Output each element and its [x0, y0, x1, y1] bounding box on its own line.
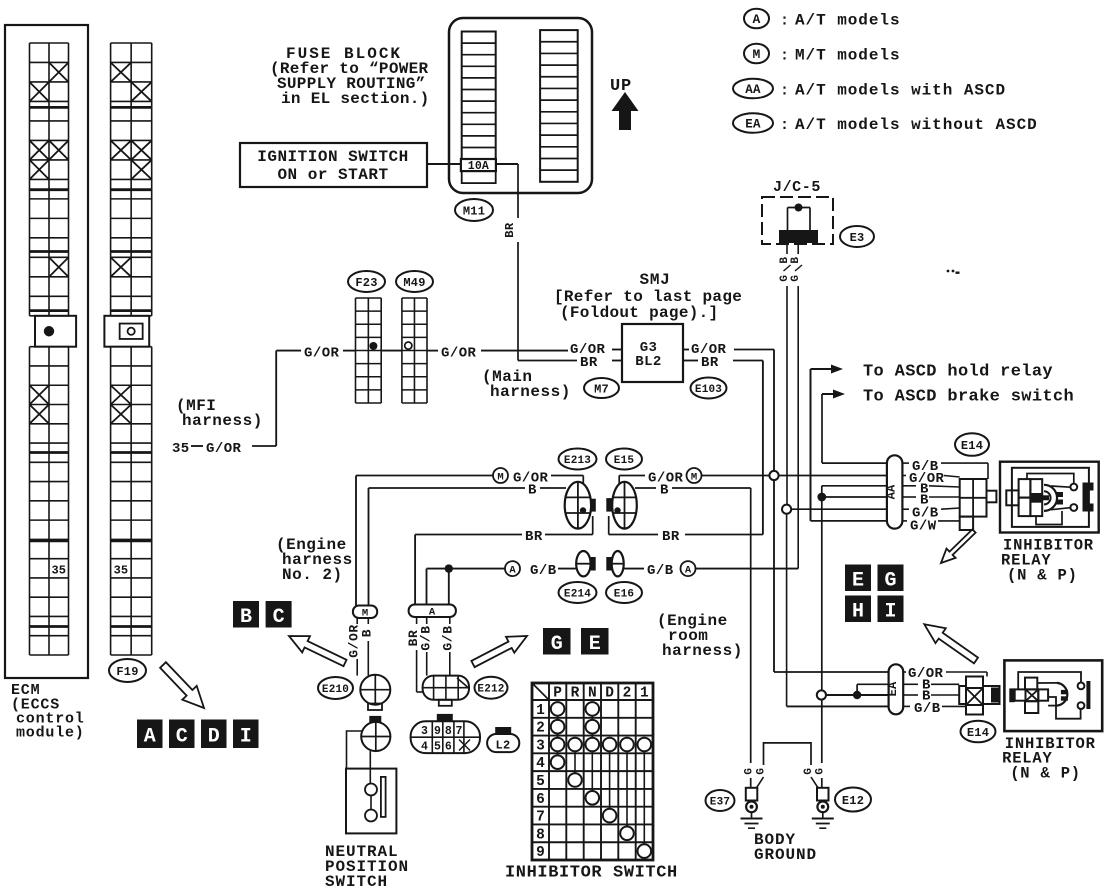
svg-text::: : — [780, 48, 789, 65]
svg-text:D: D — [605, 686, 614, 702]
svg-text:INHIBITOR SWITCH: INHIBITOR SWITCH — [505, 864, 678, 883]
svg-text:1: 1 — [536, 703, 545, 719]
svg-text:G/B: G/B — [441, 625, 456, 650]
svg-text:I: I — [884, 600, 896, 623]
svg-text:G: G — [803, 767, 815, 774]
svg-text:E14: E14 — [967, 726, 989, 740]
svg-text:8: 8 — [536, 827, 545, 843]
svg-text::: : — [780, 117, 789, 134]
svg-text:N: N — [588, 686, 597, 702]
svg-text:E12: E12 — [842, 794, 864, 808]
svg-text:A/T models without ASCD: A/T models without ASCD — [795, 116, 1038, 134]
svg-text:BR: BR — [701, 355, 719, 371]
svg-text:G: G — [756, 767, 768, 774]
svg-text:7: 7 — [536, 810, 545, 826]
svg-text:4: 4 — [421, 741, 428, 754]
svg-text:J/C-5: J/C-5 — [773, 179, 821, 196]
svg-text:G: G — [884, 569, 896, 592]
svg-text:BR: BR — [503, 222, 517, 238]
svg-text:5: 5 — [536, 774, 545, 790]
svg-text:E: E — [589, 633, 601, 656]
svg-text:B: B — [360, 629, 375, 637]
svg-text:E212: E212 — [477, 684, 504, 696]
svg-text:BR: BR — [580, 355, 598, 371]
svg-text:module): module) — [16, 725, 85, 742]
svg-text:(N & P): (N & P) — [1010, 765, 1081, 783]
svg-text:E214: E214 — [564, 588, 591, 600]
svg-text:BR: BR — [525, 529, 543, 545]
svg-text:G/OR: G/OR — [206, 441, 242, 457]
svg-text:M11: M11 — [463, 204, 485, 218]
svg-text:M: M — [497, 471, 503, 483]
svg-text:A/T models with ASCD: A/T models with ASCD — [795, 82, 1006, 100]
svg-text:L2: L2 — [495, 739, 510, 753]
svg-text:G: G — [744, 767, 756, 774]
svg-text:P: P — [553, 686, 562, 702]
svg-text:I: I — [240, 725, 252, 748]
svg-text:A: A — [509, 564, 516, 576]
svg-text:M/T models: M/T models — [795, 47, 901, 65]
svg-text:A: A — [144, 725, 156, 748]
svg-text:C: C — [273, 606, 285, 629]
svg-text:D: D — [208, 725, 220, 748]
svg-text:E37: E37 — [710, 796, 730, 808]
svg-text:M: M — [362, 608, 368, 620]
svg-text:E15: E15 — [614, 455, 635, 467]
svg-text:2: 2 — [623, 686, 632, 702]
svg-text:35: 35 — [114, 564, 128, 578]
svg-text:G/W: G/W — [910, 519, 937, 535]
svg-text:G: G — [779, 274, 791, 281]
svg-text:9: 9 — [536, 845, 545, 861]
svg-text:G/B: G/B — [914, 701, 941, 717]
svg-text:M: M — [752, 47, 760, 62]
svg-text:A: A — [429, 607, 436, 619]
svg-text:To ASCD hold relay: To ASCD hold relay — [863, 363, 1053, 382]
svg-text:harness): harness) — [662, 642, 743, 660]
svg-text:F19: F19 — [116, 665, 138, 679]
svg-text:9: 9 — [434, 725, 441, 738]
svg-text:E14: E14 — [961, 439, 983, 453]
svg-text:6: 6 — [536, 792, 545, 808]
svg-text:G/B: G/B — [530, 563, 557, 579]
svg-text:BL2: BL2 — [635, 354, 661, 370]
svg-text:M: M — [691, 471, 697, 483]
svg-text:3: 3 — [421, 725, 428, 738]
svg-text:EA: EA — [745, 118, 761, 132]
svg-text:G: G — [551, 633, 563, 656]
svg-text:6: 6 — [445, 741, 452, 754]
svg-text:G/B: G/B — [647, 563, 674, 579]
svg-text:in EL section.): in EL section.) — [281, 90, 430, 108]
svg-text:4: 4 — [536, 756, 545, 772]
svg-text:G/OR: G/OR — [441, 345, 477, 361]
svg-text:G: G — [815, 767, 827, 774]
svg-text:To ASCD brake switch: To ASCD brake switch — [863, 388, 1074, 407]
svg-text:A: A — [685, 564, 692, 576]
svg-text:C: C — [176, 725, 188, 748]
svg-text:BR: BR — [662, 529, 680, 545]
svg-text:(N & P): (N & P) — [1007, 567, 1078, 585]
svg-text:35: 35 — [52, 564, 66, 578]
svg-text:AA: AA — [745, 83, 761, 97]
svg-text:E: E — [852, 569, 864, 592]
svg-text:2: 2 — [536, 721, 545, 737]
svg-text:G/OR: G/OR — [304, 345, 340, 361]
svg-text:M7: M7 — [594, 382, 609, 396]
svg-text:E213: E213 — [564, 455, 591, 467]
svg-text:E3: E3 — [850, 231, 865, 245]
svg-text:IGNITION SWITCH: IGNITION SWITCH — [257, 148, 409, 166]
svg-text:No. 2): No. 2) — [282, 566, 343, 584]
svg-text:1: 1 — [640, 686, 649, 702]
svg-text:M49: M49 — [403, 276, 425, 290]
svg-text:B: B — [528, 483, 537, 499]
svg-text:B: B — [790, 256, 802, 263]
svg-text:UP: UP — [610, 77, 632, 96]
svg-text:E103: E103 — [695, 384, 722, 396]
svg-text:G: G — [790, 274, 802, 281]
svg-text:harness): harness) — [490, 383, 571, 401]
svg-text:5: 5 — [434, 741, 441, 754]
svg-text:8: 8 — [445, 725, 452, 738]
svg-text:A: A — [752, 12, 760, 27]
svg-text:F23: F23 — [355, 276, 377, 290]
svg-text:harness): harness) — [182, 412, 263, 430]
svg-text:35: 35 — [172, 441, 189, 457]
svg-text:E210: E210 — [322, 684, 349, 696]
svg-text:B: B — [660, 483, 669, 499]
svg-text:3: 3 — [536, 739, 545, 755]
svg-text:7: 7 — [456, 725, 463, 738]
svg-text:R: R — [571, 686, 580, 702]
svg-text:G/B: G/B — [419, 625, 434, 650]
svg-text:B: B — [240, 606, 252, 629]
svg-text:A/T models: A/T models — [795, 12, 901, 30]
svg-text:ON or START: ON or START — [277, 166, 388, 184]
svg-text:E16: E16 — [614, 588, 634, 600]
svg-text:SMJ: SMJ — [640, 271, 671, 289]
svg-text:B: B — [779, 256, 791, 263]
svg-text::: : — [780, 83, 789, 100]
svg-text:SWITCH: SWITCH — [325, 873, 388, 891]
svg-text:H: H — [852, 600, 864, 623]
svg-text::: : — [780, 13, 789, 30]
svg-text:(Foldout page).]: (Foldout page).] — [560, 304, 718, 322]
svg-text:GROUND: GROUND — [754, 846, 817, 864]
